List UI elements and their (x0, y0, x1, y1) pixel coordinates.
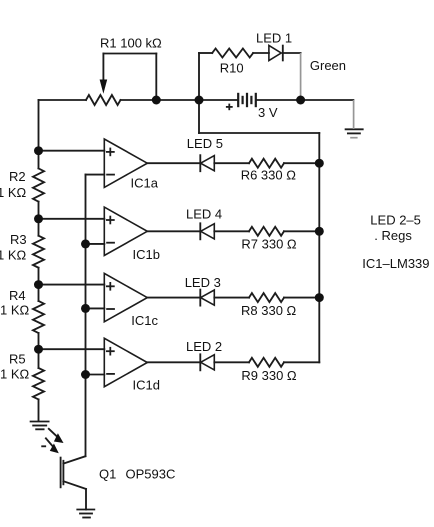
svg-text:R1 100 kΩ: R1 100 kΩ (100, 36, 162, 51)
svg-text:Green: Green (310, 58, 346, 73)
svg-text:R7 330 Ω: R7 330 Ω (241, 237, 297, 252)
svg-text:R3: R3 (10, 232, 27, 247)
svg-text:LED 5: LED 5 (187, 136, 223, 151)
svg-text:3 V: 3 V (258, 105, 278, 120)
svg-text:LED 4: LED 4 (186, 207, 222, 222)
svg-text:. Regs: . Regs (374, 228, 412, 243)
svg-text:IC1c: IC1c (131, 313, 158, 328)
svg-text:IC1d: IC1d (133, 378, 160, 393)
svg-text:1 KΩ: 1 KΩ (0, 367, 30, 382)
svg-text:LED 2–5: LED 2–5 (370, 213, 421, 228)
svg-text:1 KΩ: 1 KΩ (0, 248, 27, 263)
svg-text:LED 3: LED 3 (185, 275, 221, 290)
svg-text:R2: R2 (9, 169, 26, 184)
svg-text:OP593C: OP593C (126, 467, 176, 482)
svg-text:R6 330 Ω: R6 330 Ω (241, 168, 297, 183)
svg-text:R9 330 Ω: R9 330 Ω (241, 368, 297, 383)
svg-text:R4: R4 (9, 288, 26, 303)
svg-text:Q1: Q1 (99, 467, 116, 482)
svg-text:1 KΩ: 1 KΩ (0, 303, 30, 318)
svg-text:R8 330 Ω: R8 330 Ω (241, 303, 297, 318)
svg-text:IC1b: IC1b (133, 247, 160, 262)
svg-text:1 KΩ: 1 KΩ (0, 185, 27, 200)
svg-text:IC1a: IC1a (131, 176, 159, 191)
svg-text:R10: R10 (220, 61, 244, 76)
svg-text:LED 2: LED 2 (186, 339, 222, 354)
svg-text:LED 1: LED 1 (256, 30, 292, 45)
svg-text:IC1–LM339: IC1–LM339 (362, 256, 429, 271)
svg-text:R5: R5 (9, 352, 26, 367)
